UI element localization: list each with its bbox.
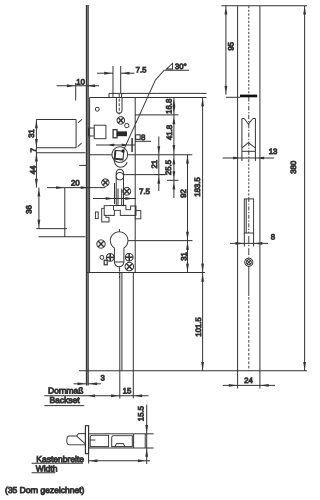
wire bottom reference line (79, 370, 307, 372)
svg-text:380: 380 (289, 160, 298, 174)
svg-text:95: 95 (227, 41, 236, 50)
dimension 21 (158, 137, 160, 192)
node corner tick upper (78, 119, 82, 123)
svg-text:7.5: 7.5 (136, 65, 148, 74)
screw cyl right (125, 253, 133, 261)
node change lever (104, 205, 136, 215)
dimension 183.5 (202, 98, 204, 371)
dimension 13 (241, 151, 243, 161)
node faceplate strip edges (237, 6, 239, 371)
node case edge tab (135, 211, 141, 219)
wire projection line (121, 273, 123, 371)
node latch tail (113, 130, 117, 138)
screw cyl bottom (125, 262, 134, 271)
svg-text:8: 8 (271, 233, 275, 242)
dimension backset 35 (44, 395, 148, 397)
svg-text:3: 3 (101, 373, 105, 382)
svg-text:Kastenbreite: Kastenbreite (36, 454, 84, 464)
svg-text:20: 20 (71, 179, 80, 188)
svg-text:10: 10 (76, 77, 85, 86)
wire cylinder center ref (129, 240, 193, 242)
dimension 16.8 (173, 98, 175, 199)
node latch front view (242, 118, 244, 120)
dimension 3 (74, 383, 87, 385)
svg-text:44: 44 (28, 165, 37, 174)
svg-text:16.8: 16.8 (164, 99, 173, 114)
screw right phillips (123, 187, 131, 195)
svg-text:31: 31 (27, 129, 36, 138)
angle symbol 30 deg (167, 63, 173, 69)
dimension 36 (38, 188, 40, 229)
svg-text:Backset: Backset (50, 395, 81, 405)
svg-text:15: 15 (123, 386, 132, 395)
dimension 101.5 (201, 273, 204, 282)
node case top view (89, 434, 146, 448)
dimension 95 (225, 6, 227, 95)
svg-text:41.8: 41.8 (165, 125, 174, 140)
node small hole B (125, 124, 129, 128)
node latch stop bar (131, 138, 133, 152)
node faceplate top view (85, 426, 88, 454)
node faceplate strip centerline (248, 6, 250, 94)
node small square D (104, 260, 107, 265)
svg-text:36: 36 (24, 205, 33, 214)
svg-text:13: 13 (269, 147, 278, 156)
dimension 24 (237, 371, 239, 389)
dimension 92 (187, 155, 189, 241)
node corner tick lower (78, 143, 82, 147)
node latch opening bar (240, 95, 257, 98)
node square 8 label (136, 135, 141, 140)
svg-text:24: 24 (244, 376, 253, 385)
wire 30 deg leader line (124, 70, 164, 149)
screw cyl left (106, 254, 114, 262)
svg-text:7: 7 (29, 148, 38, 152)
svg-text:31: 31 (179, 252, 188, 261)
dimension 7.5 top (112, 66, 114, 98)
dimension 41.8 (173, 115, 176, 124)
dimension Kastenbreite (89, 460, 150, 462)
svg-text:Dornmaß: Dornmaß (48, 386, 83, 396)
dimension 380 (304, 6, 306, 371)
node latch top view (67, 434, 86, 445)
svg-text:101.5: 101.5 (194, 317, 203, 337)
svg-text:(35 Dorn gezeichnet): (35 Dorn gezeichnet) (5, 485, 85, 495)
svg-text:15.5: 15.5 (136, 405, 145, 421)
node deadbolt front view (244, 199, 253, 233)
screw left phillips (102, 179, 109, 186)
dimension 7.5 lower (93, 198, 136, 200)
wire top reference line (221, 5, 307, 7)
screw top phillips (117, 117, 125, 125)
wire faceplate front edge line (86, 5, 88, 386)
node top slot (115, 98, 117, 111)
node small hole C (100, 256, 104, 260)
dimension 8 (243, 233, 245, 247)
node small rect hole (95, 212, 98, 219)
node case top tab (109, 92, 207, 94)
dimension 25.5 (173, 156, 176, 165)
node euro cylinder hole (118, 229, 120, 278)
svg-text:Width: Width (36, 464, 58, 474)
node lower channel slot (116, 169, 123, 182)
node follower hub (90, 154, 112, 156)
dimension 20 (47, 187, 105, 189)
node cylinder pod top view (112, 436, 133, 447)
wire double arrow line (96, 144, 135, 146)
node follower pod top view (90, 435, 108, 446)
svg-text:92: 92 (179, 189, 188, 198)
dimension 31 right (187, 241, 189, 273)
svg-text:21: 21 (150, 160, 159, 169)
node small hole A (95, 107, 99, 111)
svg-text:183.5: 183.5 (193, 177, 202, 197)
svg-text:25.5: 25.5 (164, 159, 173, 175)
screw cyl top-left (97, 240, 105, 248)
wire faceplate back edge line (87, 5, 89, 386)
dimension 31 left (35, 120, 37, 188)
dimension 10 (57, 85, 99, 87)
node lock case outline (89, 98, 91, 273)
wire short line left of faceplate (79, 164, 86, 166)
node left frame lines (36, 119, 76, 121)
svg-text:7.5: 7.5 (139, 187, 151, 196)
dimension 15.5 (145, 433, 153, 435)
node latch bolt side view (89, 128, 94, 136)
screw faceplate (245, 258, 253, 266)
